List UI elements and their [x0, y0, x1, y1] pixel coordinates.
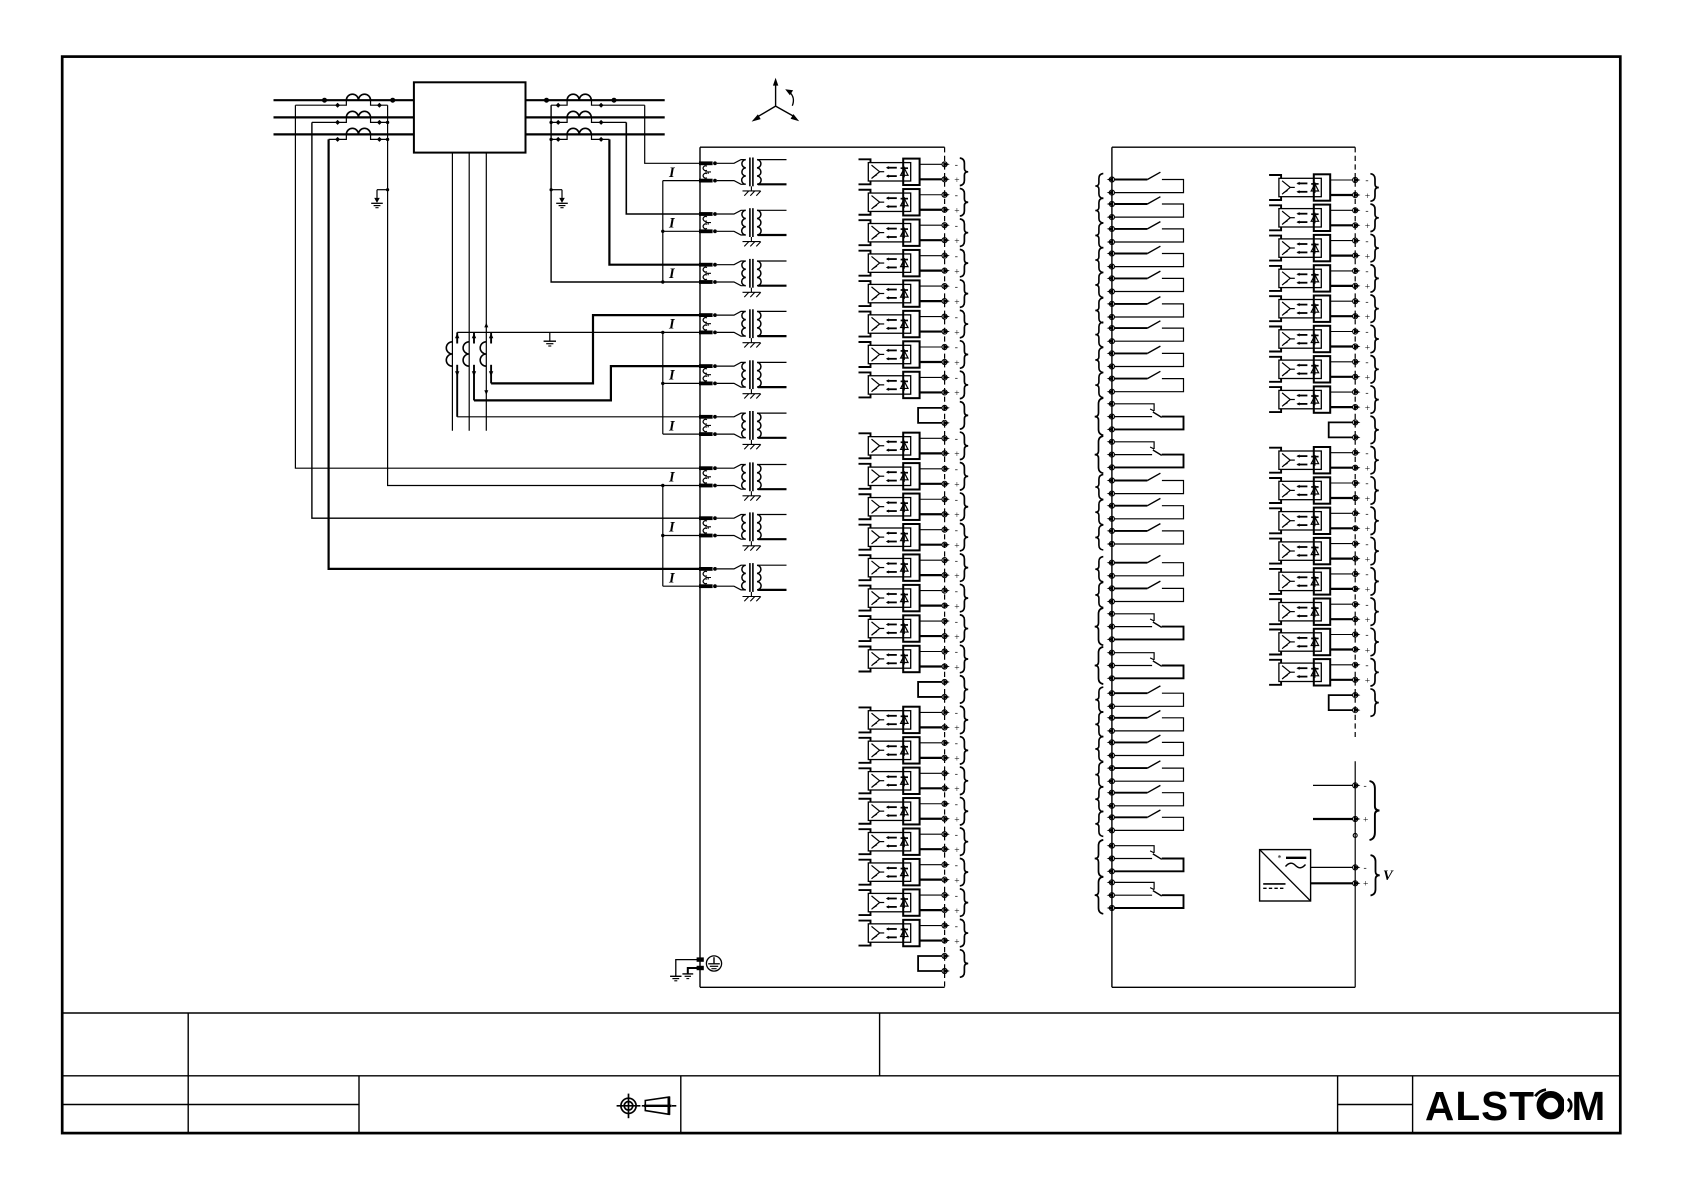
- wire right CT1 S1 to input I1: [645, 105, 700, 163]
- wire neutral lead 1: [451, 153, 453, 431]
- relay contact RL6: [1095, 297, 1183, 323]
- terminal PSU +: [1353, 881, 1361, 886]
- relay contact RL13: [1095, 555, 1183, 581]
- relay contact RL12: [1095, 524, 1183, 550]
- opto input MOPTO13: [1269, 568, 1379, 596]
- opto input OPTO24: [859, 919, 969, 947]
- svg-text:I: I: [668, 317, 676, 333]
- wire earth E2: [688, 968, 700, 974]
- opto input OPTO22: [859, 858, 969, 886]
- CT input transformer I8: [699, 512, 787, 550]
- case terminal small: [1353, 833, 1357, 837]
- wire right CT2 S1 to input I2: [626, 122, 700, 214]
- bus phase C: [274, 133, 665, 135]
- transformer box T1: [414, 82, 526, 152]
- opto input OPTO3: [859, 219, 969, 247]
- wire neutral CT1 bottom tap: [456, 365, 458, 417]
- wire chain right inputs common: [662, 181, 664, 282]
- bus phase A: [274, 99, 665, 101]
- opto input MOPTO11: [1269, 507, 1379, 535]
- wire left CT1 S1 to input I7: [295, 105, 700, 468]
- CT input transformer I9: [699, 563, 787, 601]
- changeover contact WD1: [1095, 398, 1184, 435]
- opto input MOPTO3: [1269, 234, 1379, 262]
- CT right group phase B: [567, 111, 591, 117]
- changeover contact WD4: [1095, 647, 1184, 684]
- common link row L3: [918, 950, 968, 978]
- wire left CT2 S1 tap: [312, 117, 346, 122]
- wire left CT2 S2 tap: [371, 117, 388, 122]
- ground case G4: [670, 975, 681, 977]
- wire neutral CT2 top tap: [473, 332, 475, 343]
- bus phase B: [274, 116, 665, 118]
- opto input MOPTO2: [1269, 204, 1379, 232]
- wire right CT1 S1 tap: [592, 100, 645, 105]
- ground G3 neutral CT common: [544, 332, 556, 346]
- wire neutral CT2 to input I5: [474, 366, 700, 400]
- wire neutral lead 2: [468, 153, 470, 431]
- relay contact RL14: [1095, 581, 1183, 607]
- wire right CT3 S1 tap: [592, 134, 610, 139]
- svg-text:-: -: [1364, 864, 1367, 874]
- wire right CT1 common tap: [551, 100, 567, 105]
- wire left CT common return: [388, 105, 700, 485]
- opto input OPTO14: [859, 584, 969, 612]
- opto input MOPTO12: [1269, 537, 1379, 565]
- changeover contact WD5: [1095, 840, 1184, 877]
- wire left CT3 S2 tap: [371, 134, 388, 139]
- opto input MOPTO6: [1269, 325, 1379, 353]
- junction dots bus A: [322, 98, 327, 103]
- CT input transformer I2: [699, 208, 787, 246]
- opto input OPTO2: [859, 188, 969, 216]
- ground case G5: [682, 973, 693, 975]
- CT right group phase C: [567, 128, 591, 134]
- common link row ML1: [1329, 416, 1379, 444]
- phasor rotation symbol: [775, 84, 777, 106]
- wire right CT3 common tap: [551, 134, 567, 139]
- opto input OPTO7: [859, 341, 969, 369]
- CT input transformer I4: [699, 309, 787, 347]
- wire left CT3 S1 to input I9: [329, 139, 700, 569]
- wire chain left inputs common: [662, 486, 664, 587]
- relay left terminal rail (dashed): [944, 147, 946, 987]
- terminal battery +: [1353, 816, 1361, 821]
- relay case middle column outline: [1111, 147, 1113, 987]
- case earth terminal E1: [697, 957, 704, 961]
- opto input OPTO9: [859, 432, 969, 460]
- svg-text:I: I: [668, 165, 676, 181]
- wire neutral CT2 bottom tap: [473, 365, 475, 401]
- svg-text:+: +: [1363, 880, 1368, 890]
- CT input transformer I1: [699, 158, 787, 196]
- wire neutral lead 3: [485, 153, 487, 431]
- wire left CT1 S2 tap: [371, 100, 388, 105]
- changeover contact WD2: [1095, 436, 1184, 473]
- opto input MOPTO15: [1269, 628, 1379, 656]
- svg-text:I: I: [668, 418, 676, 434]
- wire neutral CT3 to input I4: [491, 315, 700, 383]
- opto input OPTO6: [859, 310, 969, 338]
- common link row L1: [918, 402, 968, 430]
- power supply unit PSU: [1260, 850, 1311, 901]
- wire PSU output -: [1311, 866, 1353, 868]
- relay contact RL4: [1095, 246, 1183, 272]
- CT neutral cluster 2: [463, 342, 469, 366]
- opto input OPTO17: [859, 706, 969, 734]
- relay contact RL20: [1095, 810, 1183, 836]
- opto input OPTO15: [859, 615, 969, 643]
- svg-text:M: M: [1572, 1083, 1606, 1129]
- wire neutral CT3 bottom tap: [490, 365, 492, 384]
- relay case left column outline: [699, 147, 701, 987]
- relay contact RL5: [1095, 271, 1183, 297]
- common link row ML2: [1329, 689, 1379, 717]
- CT right group phase A: [567, 94, 591, 100]
- relay contact RL9: [1095, 371, 1183, 397]
- relay contact RL8: [1095, 346, 1183, 372]
- wire battery negative stub: [1313, 784, 1353, 786]
- relay contact RL7: [1095, 321, 1183, 347]
- relay contact RL19: [1095, 785, 1183, 811]
- opto input OPTO4: [859, 249, 969, 277]
- wire PSU output +: [1311, 882, 1353, 884]
- CT left group phase C: [346, 128, 370, 134]
- opto input MOPTO10: [1269, 477, 1379, 505]
- wire battery positive stub: [1313, 818, 1353, 820]
- ground G2 right CT group: [556, 190, 568, 208]
- opto input OPTO12: [859, 523, 969, 551]
- case earth terminal E2: [697, 966, 704, 970]
- wire earth E1: [676, 960, 700, 977]
- svg-text:ALST: ALST: [1425, 1083, 1535, 1129]
- wire right CT2 S1 tap: [592, 117, 627, 122]
- PSU brace: [1371, 855, 1380, 895]
- CT left group phase B: [346, 111, 370, 117]
- relay contact RL18: [1095, 761, 1183, 787]
- opto input OPTO1: [859, 158, 969, 186]
- opto input OPTO23: [859, 889, 969, 917]
- protective earth symbol: [706, 956, 721, 971]
- opto input OPTO5: [859, 280, 969, 308]
- changeover contact WD6: [1095, 877, 1184, 914]
- opto input MOPTO8: [1269, 386, 1379, 414]
- wire right CT common return: [551, 105, 700, 282]
- opto input OPTO11: [859, 493, 969, 521]
- wire left CT1 S1 tap: [295, 100, 346, 105]
- svg-text:I: I: [668, 570, 676, 586]
- wire left CT3 S1 tap: [329, 134, 347, 139]
- battery brace: [1370, 781, 1380, 840]
- wire left CT2 S1 to input I8: [312, 122, 700, 518]
- wire neutral CT1 top tap: [456, 332, 458, 343]
- relay contact RL3: [1095, 222, 1183, 248]
- opto input MOPTO7: [1269, 356, 1379, 384]
- relay contact RL16: [1095, 711, 1183, 737]
- wire right common ground jog: [551, 189, 562, 191]
- svg-text:+: +: [1363, 816, 1368, 826]
- opto input OPTO16: [859, 645, 969, 673]
- relay contact RL11: [1095, 498, 1183, 524]
- CT neutral cluster 1: [446, 342, 452, 366]
- wire left common ground jog: [377, 189, 388, 191]
- svg-text:I: I: [668, 266, 676, 282]
- wire neutral CT3 top tap: [490, 332, 492, 343]
- relay middle terminal rail (dashed): [1354, 147, 1356, 737]
- projection symbol: [621, 1098, 636, 1113]
- wire right CT3 S1 to input I3: [609, 139, 700, 264]
- svg-text:I: I: [668, 216, 676, 232]
- wire chain neutral inputs common: [662, 332, 664, 434]
- opto input OPTO18: [859, 737, 969, 765]
- CT input transformer I7: [699, 462, 787, 500]
- svg-text:-: -: [1364, 782, 1367, 792]
- polarity arrows neutral CT3: [484, 323, 488, 328]
- relay contact RL15: [1095, 686, 1183, 712]
- CT left group phase A: [346, 94, 370, 100]
- opto input OPTO20: [859, 797, 969, 825]
- opto input MOPTO1: [1269, 174, 1379, 202]
- svg-text:I: I: [668, 470, 676, 486]
- opto input MOPTO14: [1269, 598, 1379, 626]
- opto input OPTO19: [859, 767, 969, 795]
- title block lines: [62, 1012, 1620, 1014]
- changeover contact WD3: [1095, 608, 1184, 645]
- opto input OPTO8: [859, 371, 969, 399]
- svg-text:I: I: [668, 520, 676, 536]
- terminal battery -: [1353, 783, 1361, 788]
- opto input MOPTO5: [1269, 295, 1379, 323]
- ground G1 left CT group: [371, 190, 383, 208]
- svg-text:V: V: [1383, 868, 1394, 884]
- opto input OPTO21: [859, 828, 969, 856]
- svg-text:I: I: [668, 368, 676, 384]
- CT input transformer I6: [699, 411, 787, 449]
- wire right CT2 common tap: [551, 117, 567, 122]
- svg-text:*: *: [1278, 854, 1282, 863]
- relay contact RL17: [1095, 735, 1183, 761]
- terminal PSU -: [1353, 865, 1361, 870]
- wire neutral CT1 to input I6: [457, 416, 700, 418]
- opto input OPTO10: [859, 463, 969, 491]
- CT input transformer I5: [699, 360, 787, 398]
- relay contact RL2: [1095, 197, 1183, 223]
- opto input OPTO13: [859, 554, 969, 582]
- wire neutral common to input I4-: [457, 331, 700, 333]
- opto input MOPTO9: [1269, 446, 1379, 474]
- opto input MOPTO16: [1269, 659, 1379, 687]
- relay contact RL10: [1095, 473, 1183, 499]
- CT neutral cluster 3: [480, 342, 486, 366]
- CT input transformer I3: [699, 259, 787, 297]
- relay contact RL1: [1095, 172, 1183, 198]
- common link row L2: [918, 676, 968, 704]
- opto input MOPTO4: [1269, 265, 1379, 293]
